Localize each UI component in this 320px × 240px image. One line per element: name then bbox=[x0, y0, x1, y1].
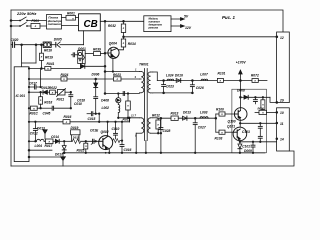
svg-text:L004: L004 bbox=[35, 144, 43, 148]
svg-text:IC 001: IC 001 bbox=[16, 94, 26, 98]
wire pin10 row bbox=[255, 110, 277, 114]
svg-text:Q100: Q100 bbox=[228, 120, 236, 124]
capacitor C028 bbox=[159, 118, 163, 153]
diode Q001 output bbox=[81, 64, 106, 69]
svg-text:R019: R019 bbox=[45, 56, 53, 60]
svg-text:220v 50Hz: 220v 50Hz bbox=[16, 11, 36, 16]
svg-text:R034: R034 bbox=[128, 42, 136, 46]
svg-text:C101: C101 bbox=[242, 144, 250, 148]
svg-text:R039: R039 bbox=[93, 48, 101, 52]
power filter board box bbox=[47, 15, 62, 30]
svg-text:C016: C016 bbox=[124, 148, 132, 152]
resistor R039 bbox=[85, 52, 105, 56]
svg-text:5V: 5V bbox=[184, 15, 189, 19]
diode D013b arrow bbox=[43, 130, 47, 139]
regulator module outline bbox=[232, 89, 267, 153]
svg-text:Q101: Q101 bbox=[227, 124, 235, 128]
capacitor C103 bbox=[258, 123, 262, 142]
capacitor C015 row bbox=[87, 112, 99, 122]
diode D006 vertical with cap C018 bbox=[94, 79, 98, 114]
svg-text:R032: R032 bbox=[108, 24, 116, 28]
diode D017 zener bbox=[62, 141, 66, 153]
svg-text:11: 11 bbox=[280, 122, 284, 126]
resistor R012 vertical bbox=[156, 118, 161, 133]
wire Q101 emitter node bbox=[239, 139, 241, 142]
transformer TR001 core bbox=[145, 69, 148, 141]
resistor R013 bbox=[171, 116, 178, 120]
wire standby feed long bbox=[124, 36, 277, 38]
svg-text:питания: питания bbox=[48, 22, 61, 26]
svg-text:12: 12 bbox=[280, 36, 284, 40]
capacitor C101 bbox=[251, 142, 255, 153]
transistor Q004 bbox=[108, 47, 119, 58]
svg-text:F001: F001 bbox=[32, 19, 40, 23]
wire mains line top bbox=[11, 20, 20, 22]
svg-text:C01E: C01E bbox=[90, 129, 99, 133]
diode D009 zener bbox=[238, 142, 242, 153]
svg-text:R072: R072 bbox=[251, 73, 259, 77]
wire D012 R022 trimmer row bbox=[29, 89, 71, 97]
transistor Q101 bbox=[233, 127, 247, 141]
svg-text:D008: D008 bbox=[237, 89, 245, 93]
transformer primary winding top bbox=[139, 72, 143, 93]
capacitor D005 electrolytic bbox=[50, 42, 84, 47]
svg-text:C103: C103 bbox=[242, 130, 250, 134]
inductor L024 bbox=[167, 79, 174, 80]
svg-text:+170V: +170V bbox=[236, 61, 247, 65]
diode D408 circle bbox=[116, 94, 121, 105]
svg-text:10: 10 bbox=[280, 111, 284, 115]
IC001 box bbox=[14, 67, 29, 162]
fuse F001 bbox=[31, 23, 47, 28]
wire mains line bottom bbox=[11, 25, 20, 27]
wire Q002 emitter down bbox=[107, 148, 109, 153]
diode D016 bbox=[176, 79, 181, 83]
wire Q100 emitter to Q101 collector bbox=[239, 117, 241, 127]
connector lower box bbox=[277, 108, 290, 151]
transistor Q100 bbox=[234, 108, 247, 121]
svg-text:R017: R017 bbox=[45, 144, 53, 148]
capacitor C015 series on base wire bbox=[93, 139, 95, 143]
svg-text:TR001: TR001 bbox=[139, 62, 149, 66]
transformer secondary winding top-right bbox=[148, 72, 157, 93]
wire CB bottom to D005 corner bbox=[83, 31, 85, 45]
resistor R018 vertical bbox=[39, 92, 43, 108]
svg-text:L003: L003 bbox=[200, 111, 208, 115]
svg-text:R011: R011 bbox=[57, 97, 65, 101]
svg-text:C010: C010 bbox=[112, 127, 120, 131]
standby module box bbox=[144, 16, 171, 32]
connector upper box bbox=[277, 32, 290, 103]
svg-text:R090: R090 bbox=[258, 106, 265, 110]
capacitor C020 bbox=[11, 42, 44, 47]
switch S1 pole 2 bbox=[21, 23, 32, 27]
snubber wire primary bottom bbox=[105, 93, 139, 95]
wire CB output right bbox=[100, 20, 144, 22]
capacitor C024 bbox=[190, 81, 194, 93]
svg-text:R013: R013 bbox=[171, 111, 179, 115]
svg-text:R016: R016 bbox=[44, 49, 52, 53]
svg-text:C028: C028 bbox=[163, 129, 171, 133]
capacitor C021 series bbox=[123, 92, 124, 96]
svg-text:L024: L024 bbox=[166, 74, 174, 78]
svg-text:R016: R016 bbox=[64, 115, 72, 119]
wire core shield ground bbox=[145, 141, 147, 153]
svg-text:R025: R025 bbox=[77, 148, 85, 152]
svg-text:R041: R041 bbox=[47, 62, 55, 66]
wire filter to CB lower bbox=[62, 25, 79, 27]
diode D013 bbox=[183, 116, 187, 120]
wire secondary rect row bbox=[157, 117, 216, 119]
wire C017 row bbox=[29, 69, 41, 90]
capacitor C023 bbox=[162, 81, 166, 93]
wire Q001 input stub bbox=[71, 53, 77, 57]
inductor L007 bbox=[201, 79, 208, 80]
wire pin14 row bbox=[240, 141, 277, 143]
svg-text:C026: C026 bbox=[196, 86, 204, 90]
transformer aux winding bottom-left bbox=[136, 118, 144, 153]
wire R016b collector rail row bbox=[29, 118, 130, 124]
resistor R032 vertical bbox=[121, 21, 125, 39]
resistor R101 bbox=[217, 78, 223, 82]
resistor R016 vertical bbox=[40, 45, 44, 69]
svg-text:C045: C045 bbox=[43, 112, 51, 116]
svg-text:D013: D013 bbox=[37, 126, 45, 130]
svg-text:R024: R024 bbox=[61, 73, 69, 77]
svg-text:режима: режима bbox=[148, 26, 159, 29]
wire Q004 emitter down bbox=[112, 58, 114, 72]
resistor R072 bbox=[252, 79, 267, 83]
svg-text:C018: C018 bbox=[77, 98, 85, 102]
svg-text:C010: C010 bbox=[74, 102, 82, 106]
capacitor C016 vertical bbox=[120, 122, 124, 153]
capacitor C019 vertical bbox=[114, 122, 118, 139]
wire CB to Q004 vertical bbox=[104, 21, 106, 93]
resistor R034 vertical bbox=[118, 39, 125, 50]
svg-text:R100: R100 bbox=[216, 108, 224, 112]
optocoupler Q001 bbox=[78, 51, 86, 64]
svg-text:C017: C017 bbox=[29, 82, 37, 86]
svg-text:R012: R012 bbox=[152, 114, 160, 118]
resistor D011 zigzag inline bbox=[72, 139, 81, 144]
wire left frame bbox=[10, 10, 12, 166]
resistor R025 vertical bbox=[84, 141, 88, 153]
capacitor C027 bbox=[193, 118, 197, 153]
wire 5V arrow bbox=[171, 18, 184, 21]
wire 12V arrow bbox=[171, 25, 184, 28]
switch S1 pole 1 bbox=[21, 17, 47, 21]
svg-text:D005: D005 bbox=[54, 37, 62, 41]
svg-text:R022: R022 bbox=[49, 86, 57, 90]
svg-text:C014: C014 bbox=[51, 135, 59, 139]
wire pin11 row bbox=[240, 122, 276, 124]
svg-text:R018: R018 bbox=[44, 100, 52, 104]
wire base row right part bbox=[81, 140, 99, 142]
wire C020 junction down to IC top bbox=[21, 45, 23, 67]
svg-text:C020: C020 bbox=[11, 38, 19, 42]
rectifier bridge CB box bbox=[79, 14, 101, 31]
svg-text:R023: R023 bbox=[113, 73, 121, 77]
svg-text:Q001: Q001 bbox=[78, 47, 86, 51]
svg-text:R001: R001 bbox=[67, 11, 75, 15]
svg-text:D017: D017 bbox=[55, 152, 63, 156]
resistor R026 zigzag emitter bbox=[113, 139, 122, 143]
resistor R021b vertical bbox=[126, 94, 131, 118]
wire +B rail bbox=[157, 80, 252, 82]
wire lower primary pin row bbox=[118, 117, 139, 119]
svg-text:R021: R021 bbox=[123, 118, 131, 122]
resistor R001 bbox=[62, 16, 79, 21]
damper box D019 bbox=[71, 130, 80, 142]
wire primary top pin1 bbox=[105, 71, 139, 73]
svg-text:C023: C023 bbox=[166, 84, 174, 88]
wire D008 output row bbox=[240, 95, 276, 102]
svg-text:14: 14 bbox=[280, 138, 284, 142]
svg-text:C015: C015 bbox=[88, 117, 96, 121]
svg-text:D011: D011 bbox=[73, 136, 80, 140]
svg-text:D408: D408 bbox=[101, 98, 109, 102]
wire base drive row: L004 R017 C014 bbox=[29, 139, 72, 144]
svg-text:C012: C012 bbox=[30, 131, 38, 135]
wire R041 row bbox=[29, 66, 81, 70]
node +170V arrow bbox=[239, 70, 243, 80]
svg-text:D016: D016 bbox=[175, 74, 183, 78]
svg-text:R01C: R01C bbox=[30, 112, 39, 116]
inductor L003 bbox=[200, 117, 208, 118]
inductor L002 vertical bbox=[118, 105, 120, 118]
svg-text:Q004: Q004 bbox=[109, 42, 117, 46]
svg-text:R103: R103 bbox=[215, 137, 223, 141]
wire IC aux rows bbox=[29, 149, 52, 151]
svg-text:D019: D019 bbox=[71, 126, 79, 130]
svg-text:L007: L007 bbox=[200, 72, 208, 76]
wire collector rail to pin row bbox=[129, 118, 131, 122]
resistor value marks bbox=[33, 18, 264, 148]
wire ground bus bbox=[63, 152, 265, 154]
svg-text:D013: D013 bbox=[183, 111, 191, 115]
capacitor C100 stub bbox=[253, 97, 257, 104]
svg-text:29: 29 bbox=[279, 98, 284, 102]
svg-text:D009: D009 bbox=[244, 149, 252, 153]
transistor Q002 bbox=[99, 136, 113, 150]
svg-text:D006: D006 bbox=[92, 73, 100, 77]
svg-text:12V: 12V bbox=[185, 26, 192, 30]
wire +170 down feed bbox=[239, 81, 241, 98]
wire R01C row bbox=[29, 106, 71, 110]
resistor R100 bbox=[216, 112, 235, 116]
wire Q100 collector up bbox=[239, 97, 241, 110]
wire bottom frame bbox=[11, 151, 294, 166]
component bead on +300V rail bbox=[43, 42, 51, 47]
wire stub junction bbox=[22, 45, 36, 63]
wire Q002 collector up bbox=[107, 122, 109, 137]
wire top rail frame bbox=[11, 10, 283, 32]
wire base split bbox=[215, 114, 217, 132]
resistor R090 vertical bbox=[261, 97, 265, 112]
resistor R101b bbox=[216, 130, 233, 134]
ground chassis symbol bbox=[61, 153, 66, 166]
svg-text:C027: C027 bbox=[198, 125, 206, 129]
svg-text:R101: R101 bbox=[218, 72, 226, 76]
wire Q004 base tap bbox=[105, 52, 111, 54]
wire secondary bottom lead bbox=[153, 92, 193, 94]
capacitor C012 vertical bbox=[33, 122, 37, 142]
svg-text:Q002: Q002 bbox=[101, 130, 109, 134]
svg-text:11 7: 11 7 bbox=[131, 114, 137, 118]
svg-text:СВ: СВ bbox=[84, 19, 98, 30]
transformer secondary winding bottom-right bbox=[148, 118, 161, 133]
svg-text:L002: L002 bbox=[101, 106, 109, 110]
wire R024 R023 row bbox=[29, 77, 139, 81]
svg-text:Рис. 1: Рис. 1 bbox=[222, 15, 235, 20]
capacitor C010a vertical bbox=[69, 92, 73, 108]
